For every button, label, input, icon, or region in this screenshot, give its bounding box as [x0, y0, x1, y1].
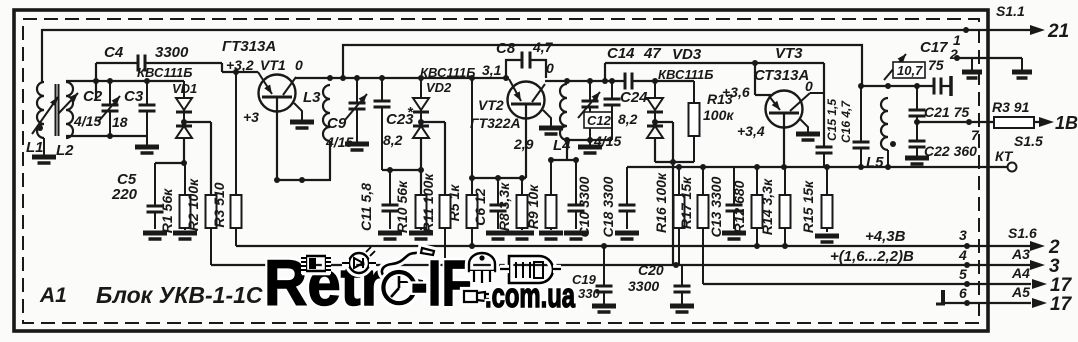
svg-text:С4: С4	[104, 44, 124, 61]
resistor R16	[653, 167, 685, 265]
title A1 Блок УКВ-1-1С	[39, 282, 263, 308]
watermark connector icon	[464, 291, 489, 302]
wire VT1 collector bus	[295, 75, 509, 81]
svg-text:Блок УКВ-1-1С: Блок УКВ-1-1С	[96, 282, 263, 308]
svg-text:3: 3	[959, 227, 967, 243]
capacitor C11	[358, 170, 402, 239]
svg-text:+3,4: +3,4	[737, 123, 765, 139]
capacitor C22	[905, 141, 977, 164]
wire VD3 mid jog	[655, 121, 673, 123]
pin 2 wire	[949, 46, 1022, 62]
svg-text:С21 75: С21 75	[924, 104, 969, 120]
svg-text:4/15: 4/15	[73, 113, 101, 129]
ground at VT3	[796, 119, 820, 140]
pin 6 arrow A5 to 17	[959, 284, 1073, 315]
capacitor C15	[816, 63, 840, 167]
svg-text:330: 330	[578, 286, 600, 301]
ground under C3	[135, 136, 159, 153]
svg-text:21: 21	[1047, 21, 1069, 42]
svg-text:4,7: 4,7	[532, 39, 554, 55]
svg-text:18: 18	[112, 114, 128, 130]
capacitor C19	[572, 246, 616, 312]
capacitor C24	[604, 81, 649, 140]
wire L4 to R9 C10	[548, 140, 579, 163]
svg-text:+4,3В: +4,3В	[865, 228, 906, 245]
resistor R1	[159, 163, 197, 239]
capacitor C12 variable	[578, 81, 600, 140]
resistor R8	[496, 178, 534, 239]
wire VD2 bottom to R10	[420, 138, 422, 195]
capacitor C9 variable	[325, 78, 367, 150]
svg-text:+3,2: +3,2	[226, 57, 254, 73]
resistor R12	[731, 167, 763, 246]
svg-text:С20: С20	[638, 262, 664, 278]
svg-text:С10 3300: С10 3300	[576, 176, 592, 237]
pin 5 arrow A4 to 17	[959, 265, 1073, 296]
svg-text:КВС111Б: КВС111Б	[420, 65, 475, 80]
svg-text:3,1: 3,1	[482, 62, 502, 78]
transistor VT3 СТ313А	[722, 45, 824, 139]
svg-text:R3 510: R3 510	[211, 182, 227, 227]
svg-text:+3,6: +3,6	[722, 84, 750, 100]
capacitor C21	[909, 83, 970, 141]
watermark clock icon	[383, 272, 414, 303]
svg-text:R5 1к: R5 1к	[446, 184, 462, 222]
ground under C9	[345, 144, 369, 150]
svg-text:+(1,6...2,2)В: +(1,6...2,2)В	[830, 248, 914, 265]
core L1-L2	[56, 84, 59, 136]
watermark iron icon	[382, 248, 434, 278]
svg-text:2,9: 2,9	[513, 136, 534, 152]
resistor R2	[185, 178, 217, 231]
svg-text:-IF: -IF	[411, 247, 472, 319]
svg-text:S1.6: S1.6	[1008, 225, 1037, 241]
trimmer 10.7	[884, 54, 925, 80]
svg-text:С13 3300: С13 3300	[708, 176, 724, 237]
wire top bus to pin 1	[42, 27, 1031, 33]
svg-text:С11 5,8: С11 5,8	[358, 183, 374, 231]
wire output KT line	[627, 164, 990, 170]
svg-text:С18 3300: С18 3300	[600, 176, 616, 237]
svg-text:VT2: VT2	[478, 97, 504, 113]
pin 1 label	[953, 32, 961, 48]
capacitor C8	[482, 39, 554, 78]
svg-text:7: 7	[971, 127, 980, 143]
svg-text:С15 1,5: С15 1,5	[825, 99, 839, 141]
capacitor C20	[628, 262, 694, 312]
svg-text:R17 15к: R17 15к	[678, 176, 694, 229]
svg-text:47: 47	[643, 45, 661, 62]
svg-text:R8 3,3к: R8 3,3к	[496, 182, 512, 231]
resistor R9	[525, 160, 563, 239]
inductor L1 (tuned)	[26, 82, 58, 156]
resistor R13	[689, 81, 735, 162]
wire VT2 emitter net	[469, 175, 526, 181]
ground at pin 2 outer	[1012, 58, 1032, 78]
svg-text:S1.5: S1.5	[1014, 133, 1043, 149]
inductor L4	[553, 84, 571, 154]
svg-text:2: 2	[949, 46, 958, 62]
svg-text:С2: С2	[83, 88, 103, 105]
svg-text:R12 680: R12 680	[731, 180, 747, 233]
svg-text:С3: С3	[124, 88, 144, 105]
capacitor C6	[472, 178, 510, 239]
resistor R10	[394, 180, 433, 239]
pin 3 arrow S1.6 to 2	[865, 225, 1060, 258]
svg-text:С24: С24	[620, 89, 648, 106]
watermark text -IF	[411, 247, 472, 319]
svg-text:А5: А5	[1011, 284, 1030, 300]
svg-text:А4: А4	[1011, 265, 1030, 281]
svg-text:R15 15к: R15 15к	[800, 180, 816, 233]
watermark text Retr	[264, 247, 384, 319]
label C12 boxed	[584, 112, 621, 149]
inductor L2 (tuned)	[56, 82, 78, 159]
varicap VD3	[647, 46, 713, 138]
wire VD3 bottom	[654, 138, 656, 162]
capacitor C14	[607, 45, 661, 90]
capacitor C10	[564, 160, 592, 239]
svg-text:А3: А3	[1011, 246, 1030, 262]
pin 7 arrow S1.5 to 1В	[1014, 113, 1078, 149]
capacitor C23	[374, 78, 415, 170]
svg-text:С8: С8	[496, 40, 516, 57]
svg-text:VD2: VD2	[426, 80, 452, 95]
svg-text:1В: 1В	[1055, 113, 1078, 133]
svg-text:17: 17	[1050, 294, 1073, 315]
wire C4 to VT1	[222, 63, 258, 72]
svg-text:КВС111Б: КВС111Б	[137, 65, 192, 80]
wire VD1 bottom	[155, 138, 187, 166]
wire to pin 7	[917, 119, 994, 143]
capacitor C18	[600, 167, 639, 239]
watermark text .com.ua	[485, 277, 576, 315]
svg-text:С19: С19	[572, 272, 597, 287]
svg-text:ГТ322А: ГТ322А	[470, 115, 521, 131]
svg-text:С14: С14	[607, 45, 635, 62]
svg-text:VT3: VT3	[775, 45, 803, 62]
svg-text:КВС111Б: КВС111Б	[658, 67, 713, 82]
wire input tank top	[66, 78, 184, 84]
inductor L3	[303, 85, 330, 141]
wire VT3 emitter stem	[783, 113, 785, 167]
watermark chip icon	[301, 256, 331, 271]
capacitor C4	[96, 44, 222, 72]
varicap VD1	[137, 65, 197, 138]
svg-text:L5: L5	[866, 154, 884, 171]
resistor R3	[211, 69, 242, 228]
svg-text:3300: 3300	[628, 278, 659, 294]
wire bus pin 6	[936, 290, 1031, 306]
watermark tube icon	[500, 256, 561, 283]
wire VT2 collector bus	[545, 78, 694, 84]
capacitor C16	[839, 83, 870, 167]
svg-text:R10 56к: R10 56к	[394, 180, 410, 233]
svg-text:100к: 100к	[703, 107, 734, 123]
watermark transistor icon	[469, 253, 495, 283]
wire antenna drop	[41, 29, 43, 82]
wire VD3 R13 bottom link	[655, 159, 694, 165]
svg-text:0: 0	[805, 78, 813, 94]
svg-text:R14 3,3к: R14 3,3к	[759, 178, 775, 235]
svg-text:4: 4	[958, 247, 967, 263]
wire VT1 emitter net	[274, 141, 331, 183]
svg-text:0: 0	[295, 57, 303, 73]
svg-text:VT1: VT1	[260, 57, 286, 73]
test point KT	[990, 148, 1017, 172]
svg-text:R11 100к: R11 100к	[420, 173, 436, 233]
wire VD1 mid to R2	[184, 122, 211, 195]
ground under C12	[578, 140, 602, 153]
svg-text:3300: 3300	[155, 44, 189, 61]
ground at pin 2 inner	[962, 58, 982, 78]
svg-text:2: 2	[1048, 237, 1060, 258]
svg-text:8,2: 8,2	[383, 132, 403, 148]
svg-text:ГТ313А: ГТ313А	[222, 38, 276, 55]
varicap VD2	[413, 65, 475, 138]
svg-text:L1: L1	[26, 139, 44, 156]
svg-text:S1.1: S1.1	[996, 3, 1025, 19]
wire VT2 base stem	[525, 104, 527, 178]
svg-text:R16 100к: R16 100к	[653, 172, 669, 233]
svg-text:75: 75	[928, 57, 944, 73]
svg-text:L3: L3	[303, 89, 321, 106]
wire C23-C11 link	[382, 167, 424, 173]
watermark LED icon	[342, 247, 376, 273]
wire bus pin 5	[703, 281, 1031, 287]
transistor VT1 ГТ313А	[222, 38, 303, 125]
border frame (inner dashed)	[23, 19, 979, 323]
svg-text:.com.ua: .com.ua	[485, 277, 576, 315]
wire bus pin 3 (+4,3V)	[236, 228, 1031, 249]
svg-text:С17: С17	[920, 39, 948, 56]
svg-text:5: 5	[959, 266, 967, 282]
svg-text:6: 6	[959, 285, 967, 301]
resistor R5	[446, 78, 478, 246]
svg-text:10,7: 10,7	[897, 63, 923, 78]
ground under L1	[32, 138, 56, 163]
wire VT3 base riser	[755, 63, 771, 95]
svg-text:+3: +3	[243, 109, 259, 125]
resistor R3 91 output	[992, 99, 1034, 128]
svg-text:С6 12: С6 12	[472, 188, 488, 226]
svg-text:3: 3	[1049, 256, 1060, 277]
svg-text:С9: С9	[327, 115, 347, 132]
svg-text:8,2: 8,2	[618, 111, 638, 127]
resistor R11	[420, 173, 451, 265]
wire tank riser	[604, 63, 606, 81]
pin 1 arrow S1.1 to 21	[996, 3, 1069, 42]
wire VT1 base stem	[276, 97, 278, 180]
svg-text:R3 91: R3 91	[992, 99, 1030, 115]
wire tuning drop to bus 4	[672, 122, 674, 265]
capacitor C2 variable	[73, 81, 120, 136]
wire heterodyne bus	[605, 60, 824, 66]
capacitor C13	[708, 167, 746, 239]
capacitor C17	[920, 39, 951, 96]
svg-text:R2 100к: R2 100к	[185, 178, 201, 231]
wire C4 tap	[95, 63, 97, 100]
svg-text:L2: L2	[56, 142, 74, 159]
resistor R14	[759, 167, 791, 246]
watermark probe icon	[398, 279, 422, 286]
svg-text:С22 360: С22 360	[924, 143, 977, 159]
svg-text:220: 220	[111, 186, 138, 203]
pin 4 arrow A3 to 3	[830, 246, 1060, 277]
wire bus pin 4 (tuning)	[211, 228, 1031, 268]
svg-text:R1 56к: R1 56к	[159, 188, 175, 233]
wire L4 tank bottom	[564, 137, 612, 143]
svg-text:VD1: VD1	[172, 81, 197, 96]
svg-text:R9 10к: R9 10к	[525, 184, 541, 229]
capacitor C5	[111, 163, 167, 239]
svg-text:СТ313А: СТ313А	[754, 67, 809, 84]
svg-text:А1: А1	[39, 284, 67, 307]
resistor R17	[678, 167, 709, 284]
resistor R15	[800, 167, 839, 242]
wire input tank bottom	[66, 133, 147, 139]
svg-text:С12: С12	[587, 113, 612, 128]
wire VD2 mid to R11	[421, 122, 445, 195]
ground at VT1	[290, 103, 314, 128]
svg-text:КТ: КТ	[995, 148, 1014, 164]
ground at VT2	[539, 110, 563, 134]
svg-text:VD3: VD3	[672, 46, 702, 63]
svg-text:С16 4,7: С16 4,7	[839, 100, 853, 143]
transistor VT2 ГТ322А	[470, 79, 545, 152]
capacitor C3	[112, 81, 156, 136]
svg-text:0: 0	[546, 60, 554, 76]
inductor L5	[866, 83, 896, 171]
wire riser to mixer line	[343, 45, 934, 86]
svg-text:17: 17	[1050, 275, 1073, 296]
